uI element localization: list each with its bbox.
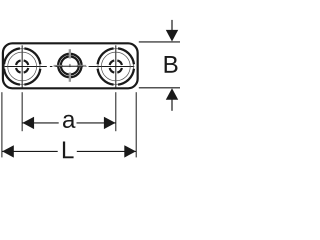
middle hole gray tick bottom [69, 73, 71, 82]
dimension B arrow up head [166, 88, 178, 100]
dimension a line left part [22, 122, 59, 124]
centerline through right hole [89, 66, 135, 68]
centerline through left hole [3, 66, 47, 68]
middle hole gray tick right [77, 65, 86, 67]
label a [63, 115, 75, 128]
centerline dash middle-right [85, 66, 87, 68]
middle hole gray tick top [69, 49, 71, 58]
left hole vertical centerline [21, 45, 23, 88]
middle hole gray tick left [54, 65, 63, 67]
dimension B extension line bottom [139, 87, 180, 89]
dimension L arrow right [124, 145, 136, 157]
middle hole outer circle [58, 54, 81, 77]
dimension B arrow down head [166, 30, 178, 42]
dimension L extension line right [135, 92, 137, 157]
middle hole gray center dot [69, 64, 71, 67]
dimension L line right part [77, 150, 136, 152]
dimension B arrow up stem [171, 98, 173, 110]
middle hole inner circle [61, 57, 79, 75]
dimension a arrow left [22, 117, 34, 129]
left hole thin circle outer [4, 49, 40, 85]
left hole inner hole circle [16, 60, 28, 72]
centerline dash left-middle [50, 66, 53, 68]
label L [63, 142, 74, 159]
left hole thin circle inner [8, 52, 37, 81]
dimension a arrow right [104, 117, 116, 129]
label B [165, 56, 178, 73]
mounting plate outline [3, 43, 138, 88]
right hole thin circle outer [98, 49, 134, 85]
dimension L line left part [2, 150, 58, 152]
right hole outer hole circle [98, 48, 134, 84]
dimension a extension line left [21, 92, 23, 131]
right hole thin circle inner [101, 52, 130, 81]
dimension L extension line left [1, 92, 3, 157]
dimension B arrow down stem [171, 20, 173, 31]
dimension L arrow left [2, 145, 14, 157]
dimension a extension line right [115, 92, 117, 131]
right hole inner hole circle [110, 60, 122, 72]
middle hole horizontal centerline [55, 65, 83, 67]
dimension a line right part [77, 122, 116, 124]
right hole vertical centerline [115, 45, 117, 88]
dimension B extension line top [139, 41, 180, 43]
left hole outer hole circle [4, 48, 40, 84]
